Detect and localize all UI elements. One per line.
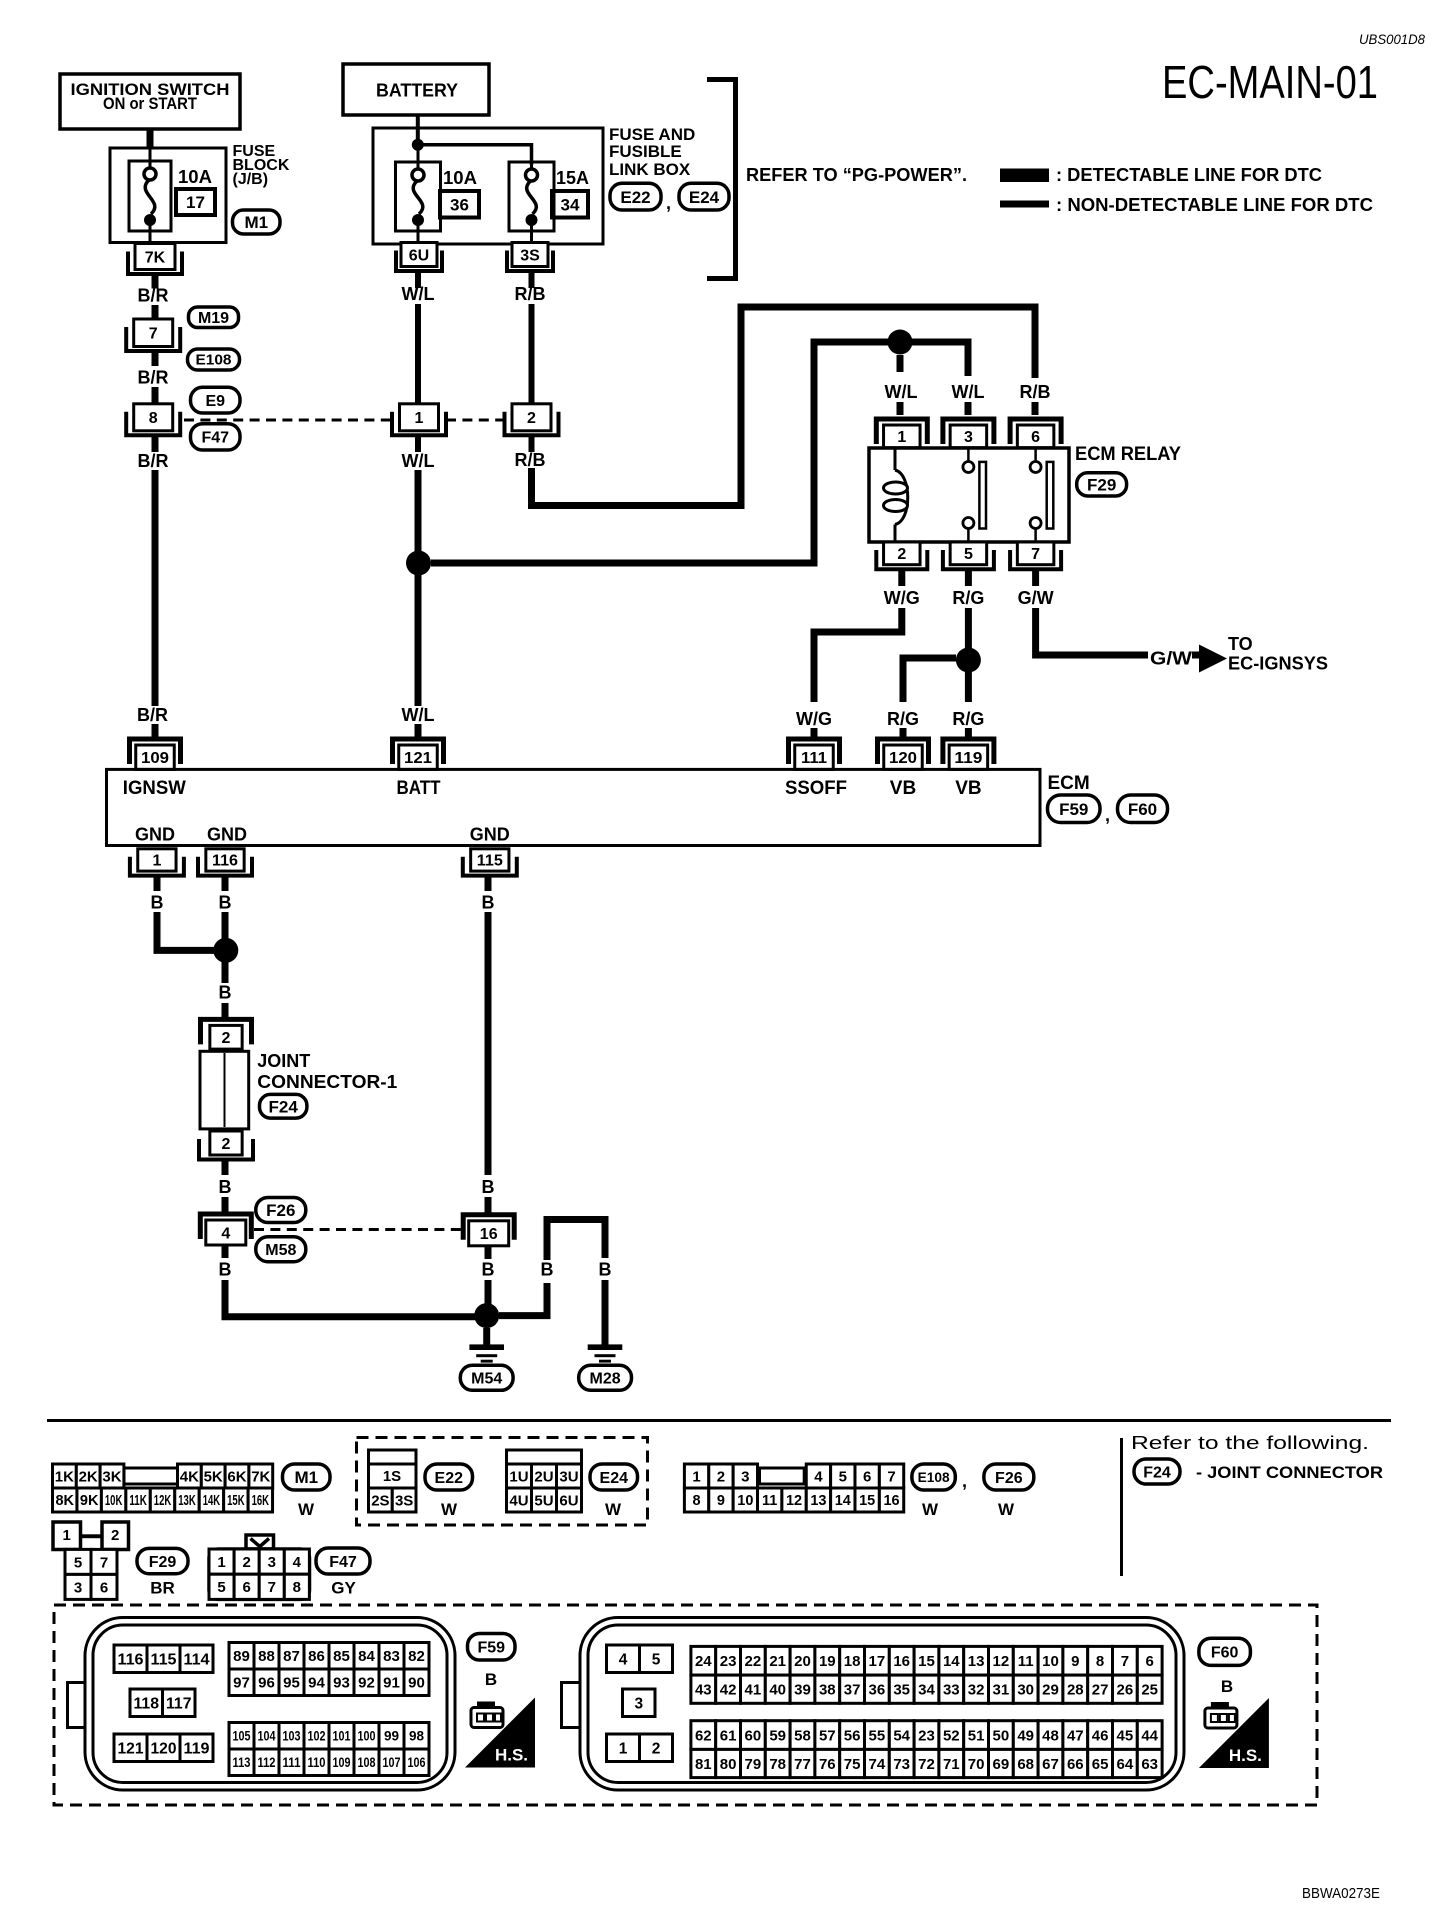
svg-text:W: W bbox=[298, 1500, 315, 1519]
ECM gnd pin 116 bbox=[198, 849, 252, 876]
svg-text:R/G: R/G bbox=[887, 709, 919, 729]
svg-text:6: 6 bbox=[863, 1468, 871, 1485]
junction dot R/G bbox=[956, 648, 981, 673]
svg-text:21: 21 bbox=[769, 1653, 786, 1670]
svg-text:G/W: G/W bbox=[1018, 588, 1054, 608]
svg-text:W/G: W/G bbox=[796, 709, 832, 729]
svg-text:F60: F60 bbox=[1211, 1645, 1239, 1662]
svg-text:2U: 2U bbox=[534, 1468, 553, 1485]
connector E108/F26 pin grid row2 bbox=[684, 1488, 903, 1512]
svg-text:29: 29 bbox=[1042, 1682, 1059, 1699]
svg-text:16K: 16K bbox=[252, 1493, 270, 1509]
svg-text:48: 48 bbox=[1042, 1727, 1059, 1744]
wire stub to pin 111 bbox=[811, 728, 818, 740]
wire to fusible link 15A bbox=[418, 145, 532, 165]
svg-text:10: 10 bbox=[737, 1493, 753, 1509]
ECM pin 111 bbox=[789, 739, 840, 769]
svg-text:109: 109 bbox=[141, 750, 169, 767]
wire gnd pin 116 stub bbox=[222, 876, 229, 892]
wire relay pin 5 stub bbox=[965, 570, 972, 586]
svg-text:66: 66 bbox=[1067, 1756, 1084, 1773]
joint connector-1 body bbox=[200, 1051, 249, 1129]
wire gnd pin 115 stub bbox=[485, 876, 492, 892]
junction dot ground bbox=[474, 1303, 499, 1328]
svg-text:B: B bbox=[151, 893, 164, 913]
svg-text:F29: F29 bbox=[1087, 476, 1116, 495]
svg-text:JOINT: JOINT bbox=[257, 1051, 310, 1071]
wire B to connector 4 bbox=[222, 1197, 229, 1214]
F59 pins 116 115 114 bbox=[114, 1645, 213, 1673]
dashed box around E22/E24 pinouts bbox=[357, 1438, 648, 1526]
svg-text:111: 111 bbox=[801, 750, 827, 767]
ECM pin 120 bbox=[878, 739, 929, 769]
svg-text:14K: 14K bbox=[203, 1493, 221, 1509]
ECM connector F59 outline bbox=[68, 1618, 456, 1791]
wire W/L to connector 1 bbox=[415, 304, 421, 404]
F60 pins 43-25 row bbox=[691, 1675, 1162, 1703]
dashed link connector 8 to 1 bbox=[184, 419, 392, 422]
svg-text:3: 3 bbox=[741, 1468, 749, 1485]
svg-text:18: 18 bbox=[844, 1653, 861, 1670]
svg-text:83: 83 bbox=[383, 1648, 400, 1665]
F59 pins 121 120 119 bbox=[114, 1734, 213, 1762]
connector oval E9 bbox=[191, 387, 241, 413]
svg-text:(J/B): (J/B) bbox=[233, 171, 269, 188]
svg-text:7: 7 bbox=[149, 326, 158, 343]
connector oval E24 (pinout) bbox=[590, 1464, 638, 1490]
svg-text:117: 117 bbox=[166, 1695, 192, 1712]
bracket for fuse/fusible link box note bbox=[707, 80, 736, 279]
svg-text:73: 73 bbox=[893, 1756, 910, 1773]
F59 pins 118 117 bbox=[130, 1689, 195, 1717]
section separator line bbox=[47, 1419, 1391, 1422]
svg-text:ON or START: ON or START bbox=[103, 94, 198, 113]
dashed link connector 1 to 2 bbox=[446, 419, 506, 422]
svg-text:50: 50 bbox=[993, 1727, 1010, 1744]
svg-text:B: B bbox=[482, 893, 495, 913]
svg-text:B: B bbox=[482, 1260, 495, 1280]
wire B/R to connector 8 bbox=[152, 387, 159, 404]
svg-text:F47: F47 bbox=[201, 430, 229, 447]
connector oval M19 bbox=[189, 307, 239, 328]
wire W/L junction to ECM pin 121 bbox=[415, 570, 422, 706]
svg-text:5: 5 bbox=[217, 1579, 225, 1596]
svg-text:7: 7 bbox=[1121, 1653, 1129, 1670]
svg-text:6K: 6K bbox=[227, 1468, 246, 1485]
svg-text:57: 57 bbox=[819, 1727, 836, 1744]
svg-text:2S: 2S bbox=[371, 1492, 389, 1509]
svg-text:26: 26 bbox=[1117, 1682, 1134, 1699]
svg-text:31: 31 bbox=[993, 1682, 1010, 1699]
arrow to EC-IGNSYS bbox=[1199, 645, 1227, 673]
svg-text:2: 2 bbox=[717, 1468, 725, 1485]
relay pin 5 bbox=[943, 542, 994, 569]
wire B to joint connector bbox=[222, 1003, 229, 1021]
fuse number 36 box bbox=[440, 191, 479, 218]
connector oval E24 bbox=[679, 183, 729, 210]
svg-text:GY: GY bbox=[331, 1579, 356, 1598]
svg-text:77: 77 bbox=[794, 1756, 811, 1773]
svg-text:W/L: W/L bbox=[402, 705, 435, 725]
svg-text:100: 100 bbox=[358, 1729, 376, 1744]
svg-text:113: 113 bbox=[233, 1755, 251, 1770]
dashed box around ECM connectors bbox=[54, 1605, 1317, 1805]
connector 4 (F26/M58) bbox=[200, 1214, 251, 1245]
connector 7K bbox=[128, 244, 182, 275]
svg-text:M58: M58 bbox=[265, 1242, 296, 1259]
connector 6U bbox=[396, 243, 442, 272]
svg-text:16: 16 bbox=[480, 1226, 498, 1243]
svg-text:5U: 5U bbox=[534, 1492, 553, 1509]
H.S. logo (F60) bbox=[1199, 1698, 1269, 1768]
F60 pins 62-44 row bbox=[691, 1721, 1162, 1750]
svg-text:H.S.: H.S. bbox=[495, 1746, 528, 1765]
svg-text:4: 4 bbox=[221, 1225, 230, 1242]
svg-text:R/G: R/G bbox=[952, 709, 984, 729]
svg-text:W/L: W/L bbox=[952, 382, 985, 402]
svg-text:91: 91 bbox=[383, 1675, 400, 1692]
wire connector 7 to B/R bbox=[152, 351, 159, 366]
svg-text:32: 32 bbox=[968, 1682, 985, 1699]
wire B down to connector 16 bbox=[485, 912, 492, 1175]
svg-text:12: 12 bbox=[786, 1493, 802, 1509]
svg-text:8: 8 bbox=[693, 1493, 701, 1509]
svg-text:B: B bbox=[485, 1670, 497, 1689]
connector oval M58 bbox=[256, 1237, 306, 1262]
svg-text:7: 7 bbox=[1031, 546, 1040, 563]
svg-text:F59: F59 bbox=[477, 1640, 505, 1657]
wire junction to M54 ground bbox=[483, 1328, 490, 1346]
svg-text:43: 43 bbox=[695, 1682, 712, 1699]
svg-text:IGNSW: IGNSW bbox=[123, 778, 186, 799]
connector 8 (E9/F47) bbox=[126, 404, 180, 436]
svg-text:15: 15 bbox=[918, 1653, 935, 1670]
F59 pins 89-82 row bbox=[229, 1643, 429, 1670]
svg-text:10: 10 bbox=[1042, 1653, 1059, 1670]
svg-text:7K: 7K bbox=[145, 249, 166, 266]
ECM relay body bbox=[869, 448, 1069, 542]
F59 pins 113-106 row bbox=[229, 1749, 429, 1776]
svg-text:R/B: R/B bbox=[515, 450, 546, 470]
svg-text:70: 70 bbox=[968, 1756, 985, 1773]
svg-text:24: 24 bbox=[695, 1653, 712, 1670]
svg-text:3: 3 bbox=[634, 1695, 643, 1712]
svg-text:REFER TO “PG-POWER”.: REFER TO “PG-POWER”. bbox=[746, 165, 967, 185]
svg-text:27: 27 bbox=[1092, 1682, 1109, 1699]
svg-text:E22: E22 bbox=[620, 188, 650, 207]
svg-text:101: 101 bbox=[333, 1729, 351, 1744]
svg-text:46: 46 bbox=[1092, 1727, 1109, 1744]
svg-text:14: 14 bbox=[943, 1653, 960, 1670]
svg-text:38: 38 bbox=[819, 1682, 836, 1699]
svg-text:E24: E24 bbox=[600, 1470, 629, 1487]
svg-text:4K: 4K bbox=[180, 1468, 199, 1485]
svg-text:89: 89 bbox=[233, 1648, 250, 1665]
svg-text:ECM: ECM bbox=[1048, 773, 1090, 794]
svg-text:M54: M54 bbox=[471, 1371, 502, 1388]
relay contact 3-5 bbox=[963, 448, 986, 542]
svg-text:17: 17 bbox=[186, 193, 205, 212]
ignition switch box bbox=[60, 74, 240, 129]
svg-text:58: 58 bbox=[794, 1727, 811, 1744]
svg-text:E9: E9 bbox=[205, 393, 225, 410]
wire B/R to connector 7 bbox=[152, 305, 159, 320]
svg-text:1: 1 bbox=[692, 1468, 700, 1485]
svg-text:114: 114 bbox=[184, 1651, 210, 1668]
svg-text:B/R: B/R bbox=[138, 451, 169, 471]
svg-text:9K: 9K bbox=[80, 1493, 99, 1509]
wire G/W after label bbox=[1192, 652, 1203, 659]
wire relay pin 7 stub bbox=[1032, 570, 1039, 586]
svg-text:8: 8 bbox=[293, 1579, 301, 1596]
svg-text:45: 45 bbox=[1117, 1727, 1134, 1744]
svg-text:: NON-DETECTABLE LINE FOR DTC: : NON-DETECTABLE LINE FOR DTC bbox=[1056, 195, 1373, 215]
connector 2 (E9/F47 row) bbox=[505, 404, 559, 436]
relay pin 2 bbox=[876, 542, 927, 569]
svg-text:2: 2 bbox=[222, 1030, 231, 1047]
svg-text:86: 86 bbox=[308, 1648, 325, 1665]
F60 pins 81-63 row bbox=[691, 1749, 1162, 1777]
svg-text:6: 6 bbox=[1146, 1653, 1154, 1670]
svg-text:3: 3 bbox=[268, 1554, 276, 1571]
svg-text:G/W: G/W bbox=[1150, 649, 1192, 669]
svg-text:107: 107 bbox=[383, 1755, 401, 1770]
fuse number 34 box bbox=[552, 191, 588, 218]
svg-text:10A: 10A bbox=[178, 167, 212, 187]
connector oval F24 (note) bbox=[1134, 1459, 1180, 1484]
F60 pins 1 2 bbox=[607, 1734, 673, 1762]
svg-text:VB: VB bbox=[890, 778, 916, 799]
svg-text:10A: 10A bbox=[443, 168, 477, 188]
svg-text:90: 90 bbox=[408, 1675, 425, 1692]
wire stub to relay pin 1 bbox=[897, 402, 904, 415]
svg-text:B: B bbox=[599, 1260, 612, 1280]
svg-text:84: 84 bbox=[358, 1648, 375, 1665]
svg-text:B: B bbox=[482, 1177, 495, 1197]
svg-text:13: 13 bbox=[968, 1653, 985, 1670]
vertical divider line bbox=[1120, 1438, 1123, 1576]
ground symbol M28 bbox=[588, 1344, 623, 1362]
svg-text:ECM RELAY: ECM RELAY bbox=[1075, 444, 1181, 465]
svg-text:60: 60 bbox=[745, 1727, 762, 1744]
svg-text:76: 76 bbox=[819, 1756, 836, 1773]
svg-text:54: 54 bbox=[893, 1727, 910, 1744]
svg-text:W/L: W/L bbox=[885, 382, 918, 402]
connector oval F47 (pinout) bbox=[316, 1548, 370, 1574]
svg-text:59: 59 bbox=[769, 1727, 786, 1744]
svg-text:W: W bbox=[605, 1500, 622, 1519]
ECM pin 109 bbox=[130, 739, 181, 769]
wire stub to pin 119 bbox=[965, 728, 972, 740]
svg-text:8: 8 bbox=[1096, 1653, 1104, 1670]
svg-text:64: 64 bbox=[1117, 1756, 1134, 1773]
svg-text:104: 104 bbox=[258, 1729, 276, 1744]
joint connector top pin 2 bbox=[201, 1019, 252, 1049]
svg-text:74: 74 bbox=[869, 1756, 886, 1773]
svg-text:R/B: R/B bbox=[1020, 382, 1051, 402]
svg-text:B/R: B/R bbox=[137, 705, 168, 725]
svg-text:115: 115 bbox=[151, 1651, 177, 1668]
svg-text:,: , bbox=[666, 193, 671, 213]
svg-text:R/G: R/G bbox=[952, 588, 984, 608]
svg-text:51: 51 bbox=[968, 1727, 985, 1744]
svg-text:49: 49 bbox=[1017, 1727, 1034, 1744]
svg-text:5: 5 bbox=[652, 1651, 661, 1668]
connector oval F24 bbox=[260, 1094, 307, 1118]
svg-text:81: 81 bbox=[695, 1756, 712, 1773]
svg-text:3K: 3K bbox=[102, 1468, 121, 1485]
svg-text:BATT: BATT bbox=[397, 778, 441, 799]
svg-text:FUSIBLE: FUSIBLE bbox=[609, 142, 682, 161]
svg-text:30: 30 bbox=[1017, 1682, 1034, 1699]
svg-text:W/L: W/L bbox=[402, 451, 435, 471]
svg-text:4: 4 bbox=[293, 1554, 302, 1571]
svg-text:7: 7 bbox=[887, 1468, 895, 1485]
svg-text:9: 9 bbox=[717, 1493, 725, 1509]
svg-text:R/B: R/B bbox=[515, 284, 546, 304]
joint connector bottom pin 2 bbox=[199, 1131, 253, 1160]
junction dot relay W/L bbox=[888, 330, 913, 355]
svg-text:B: B bbox=[219, 1260, 232, 1280]
svg-text:17: 17 bbox=[869, 1653, 886, 1670]
svg-text:E22: E22 bbox=[435, 1470, 464, 1487]
svg-text:52: 52 bbox=[943, 1727, 960, 1744]
svg-text:5: 5 bbox=[964, 546, 973, 563]
svg-text:Refer to the following.: Refer to the following. bbox=[1131, 1433, 1369, 1453]
connector oval F59 (pinout) bbox=[468, 1634, 516, 1661]
svg-text:F24: F24 bbox=[269, 1097, 299, 1116]
svg-text:92: 92 bbox=[358, 1675, 375, 1692]
svg-text:110: 110 bbox=[308, 1755, 326, 1770]
svg-text:28: 28 bbox=[1067, 1682, 1084, 1699]
svg-text:115: 115 bbox=[477, 853, 503, 870]
connector 16 (F26/M58 row) bbox=[463, 1215, 514, 1246]
svg-text:BBWA0273E: BBWA0273E bbox=[1302, 1885, 1380, 1902]
svg-text:99: 99 bbox=[384, 1729, 399, 1744]
svg-text:22: 22 bbox=[745, 1653, 762, 1670]
svg-text:3U: 3U bbox=[559, 1468, 578, 1485]
svg-text:82: 82 bbox=[408, 1648, 425, 1665]
connector oval F29 (pinout) bbox=[137, 1548, 188, 1573]
ECM box bbox=[107, 769, 1041, 845]
svg-text:93: 93 bbox=[333, 1675, 350, 1692]
svg-text:65: 65 bbox=[1092, 1756, 1109, 1773]
svg-text:35: 35 bbox=[893, 1682, 910, 1699]
wire R/B to relay pin 6 (corner route) bbox=[532, 307, 1036, 506]
connector E22 pinout bbox=[369, 1450, 417, 1512]
svg-text:42: 42 bbox=[720, 1682, 737, 1699]
F59 pins 97-90 row bbox=[229, 1669, 429, 1696]
svg-text:6: 6 bbox=[242, 1579, 250, 1596]
junction dot W/L branch bbox=[406, 551, 431, 576]
svg-text:1: 1 bbox=[217, 1554, 225, 1571]
svg-text:36: 36 bbox=[869, 1682, 886, 1699]
wire connector 8 to B/R bbox=[152, 436, 159, 453]
wire stub to relay pin 3 bbox=[965, 402, 972, 415]
connector E24 pinout bbox=[507, 1450, 582, 1512]
ground symbol M54 bbox=[469, 1344, 504, 1362]
F60 pin 3 bbox=[623, 1689, 656, 1717]
svg-text:2: 2 bbox=[111, 1527, 119, 1544]
fuse 10A #17 symbol bbox=[129, 147, 171, 243]
wire battery to fuse box bbox=[416, 115, 420, 142]
connector oval M28 bbox=[579, 1365, 632, 1390]
svg-text:7: 7 bbox=[268, 1579, 276, 1596]
wire stub to pin 120 bbox=[900, 728, 907, 740]
wire B to junction bbox=[222, 912, 229, 940]
svg-text:W/G: W/G bbox=[884, 588, 920, 608]
svg-text:63: 63 bbox=[1141, 1756, 1158, 1773]
svg-text:B: B bbox=[219, 983, 232, 1003]
svg-text:118: 118 bbox=[134, 1695, 160, 1712]
svg-text:UBS001D8: UBS001D8 bbox=[1359, 31, 1425, 47]
legend thin bar: non-detectable line bbox=[1000, 201, 1049, 208]
svg-text:1: 1 bbox=[63, 1527, 71, 1544]
svg-text:B/R: B/R bbox=[138, 368, 169, 388]
svg-text:F26: F26 bbox=[266, 1201, 295, 1220]
wire 6U stub bbox=[415, 271, 421, 288]
svg-text:47: 47 bbox=[1067, 1727, 1084, 1744]
wire connector 16 stub bbox=[485, 1246, 492, 1259]
connector 1 (E9/F47 row) bbox=[392, 404, 446, 436]
relay pin 7 bbox=[1010, 542, 1061, 569]
svg-text:61: 61 bbox=[720, 1727, 737, 1744]
svg-text:56: 56 bbox=[844, 1727, 861, 1744]
svg-text:12: 12 bbox=[993, 1653, 1010, 1670]
svg-text:E108: E108 bbox=[196, 353, 232, 369]
fuse 10A #36 symbol bbox=[396, 148, 441, 243]
svg-text:37: 37 bbox=[844, 1682, 861, 1699]
svg-text:88: 88 bbox=[258, 1648, 275, 1665]
relay contact 6-7 bbox=[1030, 448, 1053, 542]
svg-text:- JOINT CONNECTOR: - JOINT CONNECTOR bbox=[1196, 1463, 1383, 1482]
svg-text:69: 69 bbox=[993, 1756, 1010, 1773]
svg-text:2: 2 bbox=[222, 1136, 231, 1153]
svg-text:103: 103 bbox=[283, 1729, 301, 1744]
svg-text:94: 94 bbox=[308, 1675, 325, 1692]
svg-text:GND: GND bbox=[207, 825, 247, 845]
svg-text:W: W bbox=[441, 1500, 458, 1519]
fuse and fusible link box bbox=[373, 128, 603, 244]
svg-text:W/L: W/L bbox=[402, 284, 435, 304]
svg-text:TO: TO bbox=[1228, 634, 1253, 654]
svg-text:97: 97 bbox=[233, 1675, 250, 1692]
svg-text:: DETECTABLE LINE FOR DTC: : DETECTABLE LINE FOR DTC bbox=[1056, 165, 1322, 185]
svg-text:W: W bbox=[998, 1500, 1015, 1519]
wire R/G junction branch to pin 120 bbox=[903, 658, 956, 702]
svg-text:41: 41 bbox=[745, 1682, 762, 1699]
connector M1 pin grid row2 bbox=[53, 1488, 273, 1512]
svg-text:5K: 5K bbox=[204, 1468, 223, 1485]
svg-text:E108: E108 bbox=[918, 1470, 950, 1485]
svg-text:119: 119 bbox=[954, 750, 982, 767]
svg-text:3S: 3S bbox=[520, 247, 540, 264]
svg-text:2: 2 bbox=[242, 1554, 250, 1571]
svg-text:33: 33 bbox=[943, 1682, 960, 1699]
svg-text:1K: 1K bbox=[55, 1468, 74, 1485]
svg-text:23: 23 bbox=[720, 1653, 737, 1670]
svg-text:F47: F47 bbox=[329, 1554, 357, 1571]
svg-text:2K: 2K bbox=[79, 1468, 98, 1485]
relay coil bbox=[884, 448, 908, 542]
wire stub to pin 109 bbox=[152, 724, 159, 740]
svg-text:15K: 15K bbox=[227, 1493, 245, 1509]
svg-text:VB: VB bbox=[955, 778, 981, 799]
svg-text:M1: M1 bbox=[244, 213, 268, 232]
fuse number 17 box bbox=[176, 189, 215, 215]
wire W/L branch to relay (corner route) bbox=[431, 342, 968, 563]
svg-text:4: 4 bbox=[619, 1651, 628, 1668]
